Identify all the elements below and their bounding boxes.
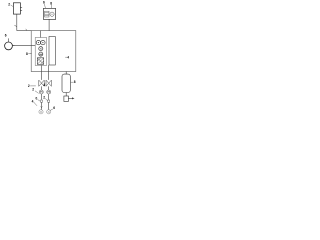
- inner duct (empty rectangle): [49, 37, 55, 66]
- tick near corner: [26, 29, 27, 30]
- roller pair right: [41, 40, 45, 44]
- svg-text:8: 8: [74, 80, 76, 84]
- leader lower-right: [50, 109, 53, 111]
- dosing unit (top box): [43, 8, 55, 19]
- hopper inside dosing unit (hatched): [45, 11, 49, 17]
- wheel inside dosing unit: [50, 12, 54, 16]
- label 2 leader: [11, 5, 14, 7]
- tank port stub upper: [20, 6, 22, 8]
- blower 6 (circle): [5, 42, 13, 50]
- wire: right motor down: [48, 94, 50, 100]
- svg-text:6: 6: [53, 106, 55, 110]
- svg-text:8: 8: [26, 52, 28, 56]
- tank 2 (top-left supply vessel): [13, 3, 20, 14]
- wire: tank downpipe: [16, 14, 18, 31]
- wire: left drop to valve 12: [41, 65, 43, 80]
- wire: left line to nozzle: [41, 102, 43, 109]
- svg-text:2: 2: [43, 96, 45, 100]
- svg-text:8: 8: [50, 2, 52, 6]
- label 26 leader: [44, 4, 45, 8]
- chamber 4 (large enclosure): [31, 31, 76, 72]
- outlet box 20: [64, 96, 69, 101]
- cyclone 18 (capsule): [62, 74, 70, 92]
- coupling left (small box): [41, 100, 43, 102]
- label leader to left motor: [35, 91, 39, 94]
- wire: stem from dosing unit to chamber top: [48, 19, 50, 30]
- svg-text:0: 0: [36, 96, 38, 100]
- wire: feed line to chamber: [17, 30, 31, 32]
- motor M left: [39, 90, 43, 94]
- leader to right coupling: [45, 98, 47, 100]
- chevron on left line: [41, 106, 43, 107]
- svg-text:4: 4: [43, 83, 45, 87]
- arrow tick on downpipe: [14, 25, 16, 26]
- svg-text:2: 2: [32, 88, 34, 92]
- wire: right line to nozzle: [48, 102, 50, 109]
- mill wheel upper: [39, 47, 43, 51]
- valve 12 (left star feeder): [39, 80, 44, 86]
- valve 14 (right star feeder): [46, 80, 51, 86]
- label 28 leader: [51, 5, 53, 8]
- mill wheel lower: [39, 52, 43, 56]
- label 4 leader dash: [65, 56, 67, 58]
- leader to left coupling: [37, 99, 40, 101]
- wire: left motor down: [41, 94, 43, 100]
- svg-text:6: 6: [43, 1, 45, 5]
- tank port stub lower: [20, 9, 22, 11]
- svg-text:2: 2: [28, 84, 30, 88]
- sieve block (hatched): [37, 58, 43, 65]
- svg-text:4: 4: [32, 99, 34, 103]
- wire: capsule to outlet box: [65, 93, 67, 97]
- motor M right: [47, 90, 51, 94]
- label 8 leader dash: [28, 53, 31, 55]
- label 18 leader dash: [71, 81, 74, 83]
- wire: blower air line into column: [12, 45, 14, 47]
- column unit 8 (machine box): [35, 38, 46, 66]
- wire: right drop to valve 14: [48, 65, 50, 80]
- wire: drop to cyclone 18: [65, 72, 67, 75]
- wire: left valve to motor: [41, 86, 43, 90]
- nozzle right (circle with cross): [47, 110, 51, 114]
- nozzle left (circle with cross): [39, 110, 43, 114]
- coupling right (small box): [48, 100, 50, 102]
- svg-text:4: 4: [67, 55, 69, 59]
- roller pair left: [36, 40, 40, 44]
- leader lower-left: [34, 102, 37, 106]
- outlet arrow: [68, 97, 72, 99]
- svg-text:2: 2: [8, 2, 10, 6]
- svg-text:6: 6: [5, 34, 7, 38]
- wire: column feed stem: [40, 31, 42, 38]
- blower 6 top stub: [8, 38, 10, 42]
- label 12 leader dash: [30, 85, 36, 87]
- wire: right valve to motor: [48, 86, 50, 90]
- junction dot on chamber wall: [30, 52, 33, 55]
